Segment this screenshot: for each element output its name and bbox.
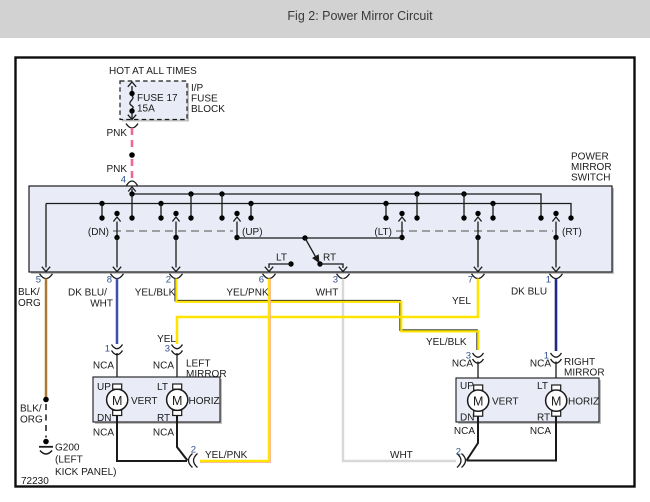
fixed contact stub from bus A x=191 xyxy=(190,194,192,218)
switch wiper contact pin 2 xyxy=(173,211,178,216)
svg-text:HORIZ: HORIZ xyxy=(568,397,599,408)
svg-text:2: 2 xyxy=(166,275,171,286)
wire left mirror pin1 into box xyxy=(116,353,118,384)
wire BLK/ORG dashed to ground xyxy=(45,404,47,438)
selector common link wire xyxy=(237,237,402,239)
wire DK BLU pin1 to right mirror pin1 xyxy=(555,279,558,352)
svg-text:HOT AT ALL TIMES: HOT AT ALL TIMES xyxy=(109,66,197,77)
switch wiper contact pin 7 xyxy=(475,211,480,216)
svg-text:UP: UP xyxy=(97,382,111,393)
motor M VERT right xyxy=(474,385,483,390)
motor M HORIZ right xyxy=(552,385,561,390)
svg-text:PNK: PNK xyxy=(106,128,127,139)
svg-text:NCA: NCA xyxy=(454,426,475,437)
svg-text:NCA: NCA xyxy=(93,428,114,439)
svg-text:ORG: ORG xyxy=(20,415,43,426)
svg-text:(DN): (DN) xyxy=(88,227,109,238)
svg-text:3: 3 xyxy=(333,275,338,286)
wire WHT pin3 to right mirror xyxy=(343,279,456,462)
svg-text:RT: RT xyxy=(537,413,550,424)
switch pin 1 exit connector xyxy=(550,274,563,279)
bus A junction x=191 xyxy=(188,191,193,196)
wire PNK dashed xyxy=(131,128,134,151)
svg-text:LT: LT xyxy=(537,381,548,392)
svg-text:MIRROR: MIRROR xyxy=(571,162,612,173)
wire left mirror RT to pin2 xyxy=(177,416,188,461)
svg-text:NCA: NCA xyxy=(530,426,551,437)
switch pin 7 exit connector xyxy=(472,274,485,279)
switch coupling dashed line left xyxy=(113,230,233,232)
svg-text:DN: DN xyxy=(97,413,111,424)
bus B junction and contact stub x=251 xyxy=(248,201,253,206)
svg-text:I/P: I/P xyxy=(191,83,204,94)
switch bus B xyxy=(46,204,571,219)
svg-text:KICK PANEL): KICK PANEL) xyxy=(55,467,117,478)
svg-text:NCA: NCA xyxy=(153,361,174,372)
wire left mirror pin3 into box xyxy=(176,353,178,384)
svg-text:WHT: WHT xyxy=(316,288,339,299)
svg-text:8: 8 xyxy=(107,275,112,286)
svg-text:4: 4 xyxy=(121,175,126,186)
svg-text:M: M xyxy=(473,395,483,409)
svg-text:LT: LT xyxy=(276,253,287,264)
svg-text:(LT): (LT) xyxy=(374,227,392,238)
bus B end contact xyxy=(568,215,573,220)
svg-text:2: 2 xyxy=(191,445,196,456)
junction BLK/ORG xyxy=(43,397,49,403)
svg-text:YEL: YEL xyxy=(452,296,471,307)
svg-text:NCA: NCA xyxy=(452,359,473,370)
switch wiper contact (LT) common xyxy=(399,211,404,216)
bus B junction and contact stub x=386 xyxy=(383,201,388,206)
RT contact xyxy=(317,261,322,266)
svg-text:1: 1 xyxy=(105,344,110,355)
motor M HORIZ left xyxy=(173,384,182,389)
svg-text:PNK: PNK xyxy=(106,164,127,175)
switch pin 2 exit connector xyxy=(170,274,183,279)
switch bus A xyxy=(132,194,541,218)
wire YEL/BLK pin2 to right mirror pin3 black tracer xyxy=(175,279,477,351)
svg-text:HORIZ: HORIZ xyxy=(189,396,220,407)
svg-text:YEL/PNK: YEL/PNK xyxy=(205,450,248,461)
right mirror pin 2 connector xyxy=(457,454,461,468)
wire left mirror DN to pin2 xyxy=(117,416,187,462)
svg-text:(LEFT: (LEFT xyxy=(55,455,83,466)
switch pin 3 exit connector xyxy=(337,274,350,279)
wire RT contact to pin 3 exit xyxy=(320,264,343,268)
bus A junction x=417 xyxy=(414,191,419,196)
svg-text:Fig 2: Power Mirror Circuit: Fig 2: Power Mirror Circuit xyxy=(287,9,433,23)
bus A junction x=222 xyxy=(219,191,224,196)
svg-text:NCA: NCA xyxy=(153,428,174,439)
svg-text:POWER: POWER xyxy=(571,152,609,163)
svg-text:NCA: NCA xyxy=(93,361,114,372)
svg-text:72230: 72230 xyxy=(21,476,49,487)
selector pivot junction xyxy=(302,235,307,240)
svg-text:UP: UP xyxy=(460,381,474,392)
wire right mirror pin1 into box xyxy=(555,362,557,387)
svg-text:(RT): (RT) xyxy=(562,227,582,238)
svg-text:RT: RT xyxy=(157,413,170,424)
right mirror box xyxy=(458,380,601,424)
ground G200 symbol xyxy=(43,439,49,445)
svg-text:M: M xyxy=(551,395,561,409)
svg-text:VERT: VERT xyxy=(131,396,158,407)
wire BLK/ORG pin5 to ground xyxy=(45,279,48,400)
fixed contact stub from bus A x=417 xyxy=(416,194,418,218)
svg-text:BLK/: BLK/ xyxy=(20,404,42,415)
switch coupling dashed line right xyxy=(396,230,553,232)
switch pin 6 exit connector xyxy=(263,274,276,279)
svg-text:RIGHT: RIGHT xyxy=(564,357,595,368)
svg-text:VERT: VERT xyxy=(492,397,519,408)
svg-text:DK BLU/: DK BLU/ xyxy=(68,288,107,299)
bus A end contact xyxy=(538,215,543,220)
switch wiper contact pin 1 xyxy=(553,211,558,216)
bus B junction and contact stub x=493 xyxy=(490,201,495,206)
wire right mirror pin3 into box xyxy=(477,362,479,387)
svg-text:G200: G200 xyxy=(55,443,80,454)
wire LT contact to pin 6 exit xyxy=(269,264,291,268)
svg-text:BLK/: BLK/ xyxy=(18,287,40,298)
svg-text:YEL/PNK: YEL/PNK xyxy=(226,288,269,299)
svg-text:WHT: WHT xyxy=(90,299,113,310)
motor M VERT left xyxy=(113,384,122,389)
right mirror pin 3 connector xyxy=(473,353,484,357)
left mirror pin 3 connector xyxy=(172,345,183,349)
wire YEL/BLK pin2 to right mirror pin3 xyxy=(176,279,478,351)
svg-text:6: 6 xyxy=(259,275,264,286)
svg-text:M: M xyxy=(112,394,122,408)
bus A junction x=464 xyxy=(461,191,466,196)
svg-text:FUSE: FUSE xyxy=(191,94,218,105)
switch pin 8 exit connector xyxy=(111,274,124,279)
fixed contact stub from bus A x=464 xyxy=(463,194,465,218)
svg-text:FUSE 17: FUSE 17 xyxy=(137,93,178,104)
power mirror switch box xyxy=(31,188,614,274)
wire right mirror RT to pin2 xyxy=(467,416,557,460)
svg-text:NCA: NCA xyxy=(530,359,551,370)
svg-text:ORG: ORG xyxy=(18,298,41,309)
LT contact xyxy=(288,261,293,266)
left mirror pin 2 connector xyxy=(189,454,193,468)
header bar xyxy=(0,0,650,38)
switch pin 4 entry connector xyxy=(127,181,138,186)
svg-text:SWITCH: SWITCH xyxy=(571,173,610,184)
svg-text:7: 7 xyxy=(468,275,473,286)
I/P fuse block box xyxy=(122,83,189,122)
switch wiper contact (UP) common xyxy=(234,211,239,216)
bus B junction and contact stub x=161 xyxy=(158,201,163,206)
junction on PNK wire xyxy=(129,152,135,158)
fixed contact stub from bus A x=222 xyxy=(221,194,223,218)
svg-text:BLOCK: BLOCK xyxy=(191,104,225,115)
svg-text:LT: LT xyxy=(157,382,168,393)
pin4 contact stub xyxy=(131,194,133,218)
svg-text:WHT: WHT xyxy=(390,450,413,461)
svg-text:(UP): (UP) xyxy=(242,227,263,238)
svg-text:M: M xyxy=(172,394,182,408)
svg-text:3: 3 xyxy=(165,344,170,355)
bus A junction x=132 xyxy=(129,191,134,196)
right mirror pin 1 connector xyxy=(551,353,562,357)
svg-text:YEL/BLK: YEL/BLK xyxy=(135,288,176,299)
switch wiper contact pin 8 xyxy=(114,211,119,216)
svg-text:MIRROR: MIRROR xyxy=(564,368,605,379)
left mirror pin 1 connector xyxy=(112,345,123,349)
fuse F17 symbol xyxy=(131,86,133,93)
wire YEL/PNK pin6 to left mirror pin2 pink tracer xyxy=(200,279,270,463)
pin 4 entry arrow xyxy=(131,189,133,194)
wire YEL pin7 to left mirror pin3 xyxy=(177,279,478,345)
wire bus B to pin 5 exit xyxy=(45,204,47,268)
selector lever arm xyxy=(305,238,316,258)
wire right mirror DN to pin2 xyxy=(467,416,479,460)
wire YEL/PNK pin6 to left mirror pin2 xyxy=(200,279,269,462)
svg-text:DK BLU: DK BLU xyxy=(511,287,547,298)
wire DK BLU/WHT pin8 to left mirror pin1 xyxy=(116,279,119,345)
switch pin 5 exit connector xyxy=(40,274,53,279)
svg-text:RT: RT xyxy=(323,253,336,264)
svg-text:YEL/BLK: YEL/BLK xyxy=(426,337,467,348)
fuse block exit connector xyxy=(126,124,138,129)
bus B junction and contact stub x=102 xyxy=(99,201,104,206)
svg-text:2: 2 xyxy=(456,447,461,458)
svg-text:DN: DN xyxy=(460,413,474,424)
svg-text:1: 1 xyxy=(546,275,551,286)
svg-text:LEFT: LEFT xyxy=(186,359,210,370)
svg-text:15A: 15A xyxy=(137,104,155,115)
svg-text:5: 5 xyxy=(36,275,41,286)
left mirror box xyxy=(95,379,222,424)
